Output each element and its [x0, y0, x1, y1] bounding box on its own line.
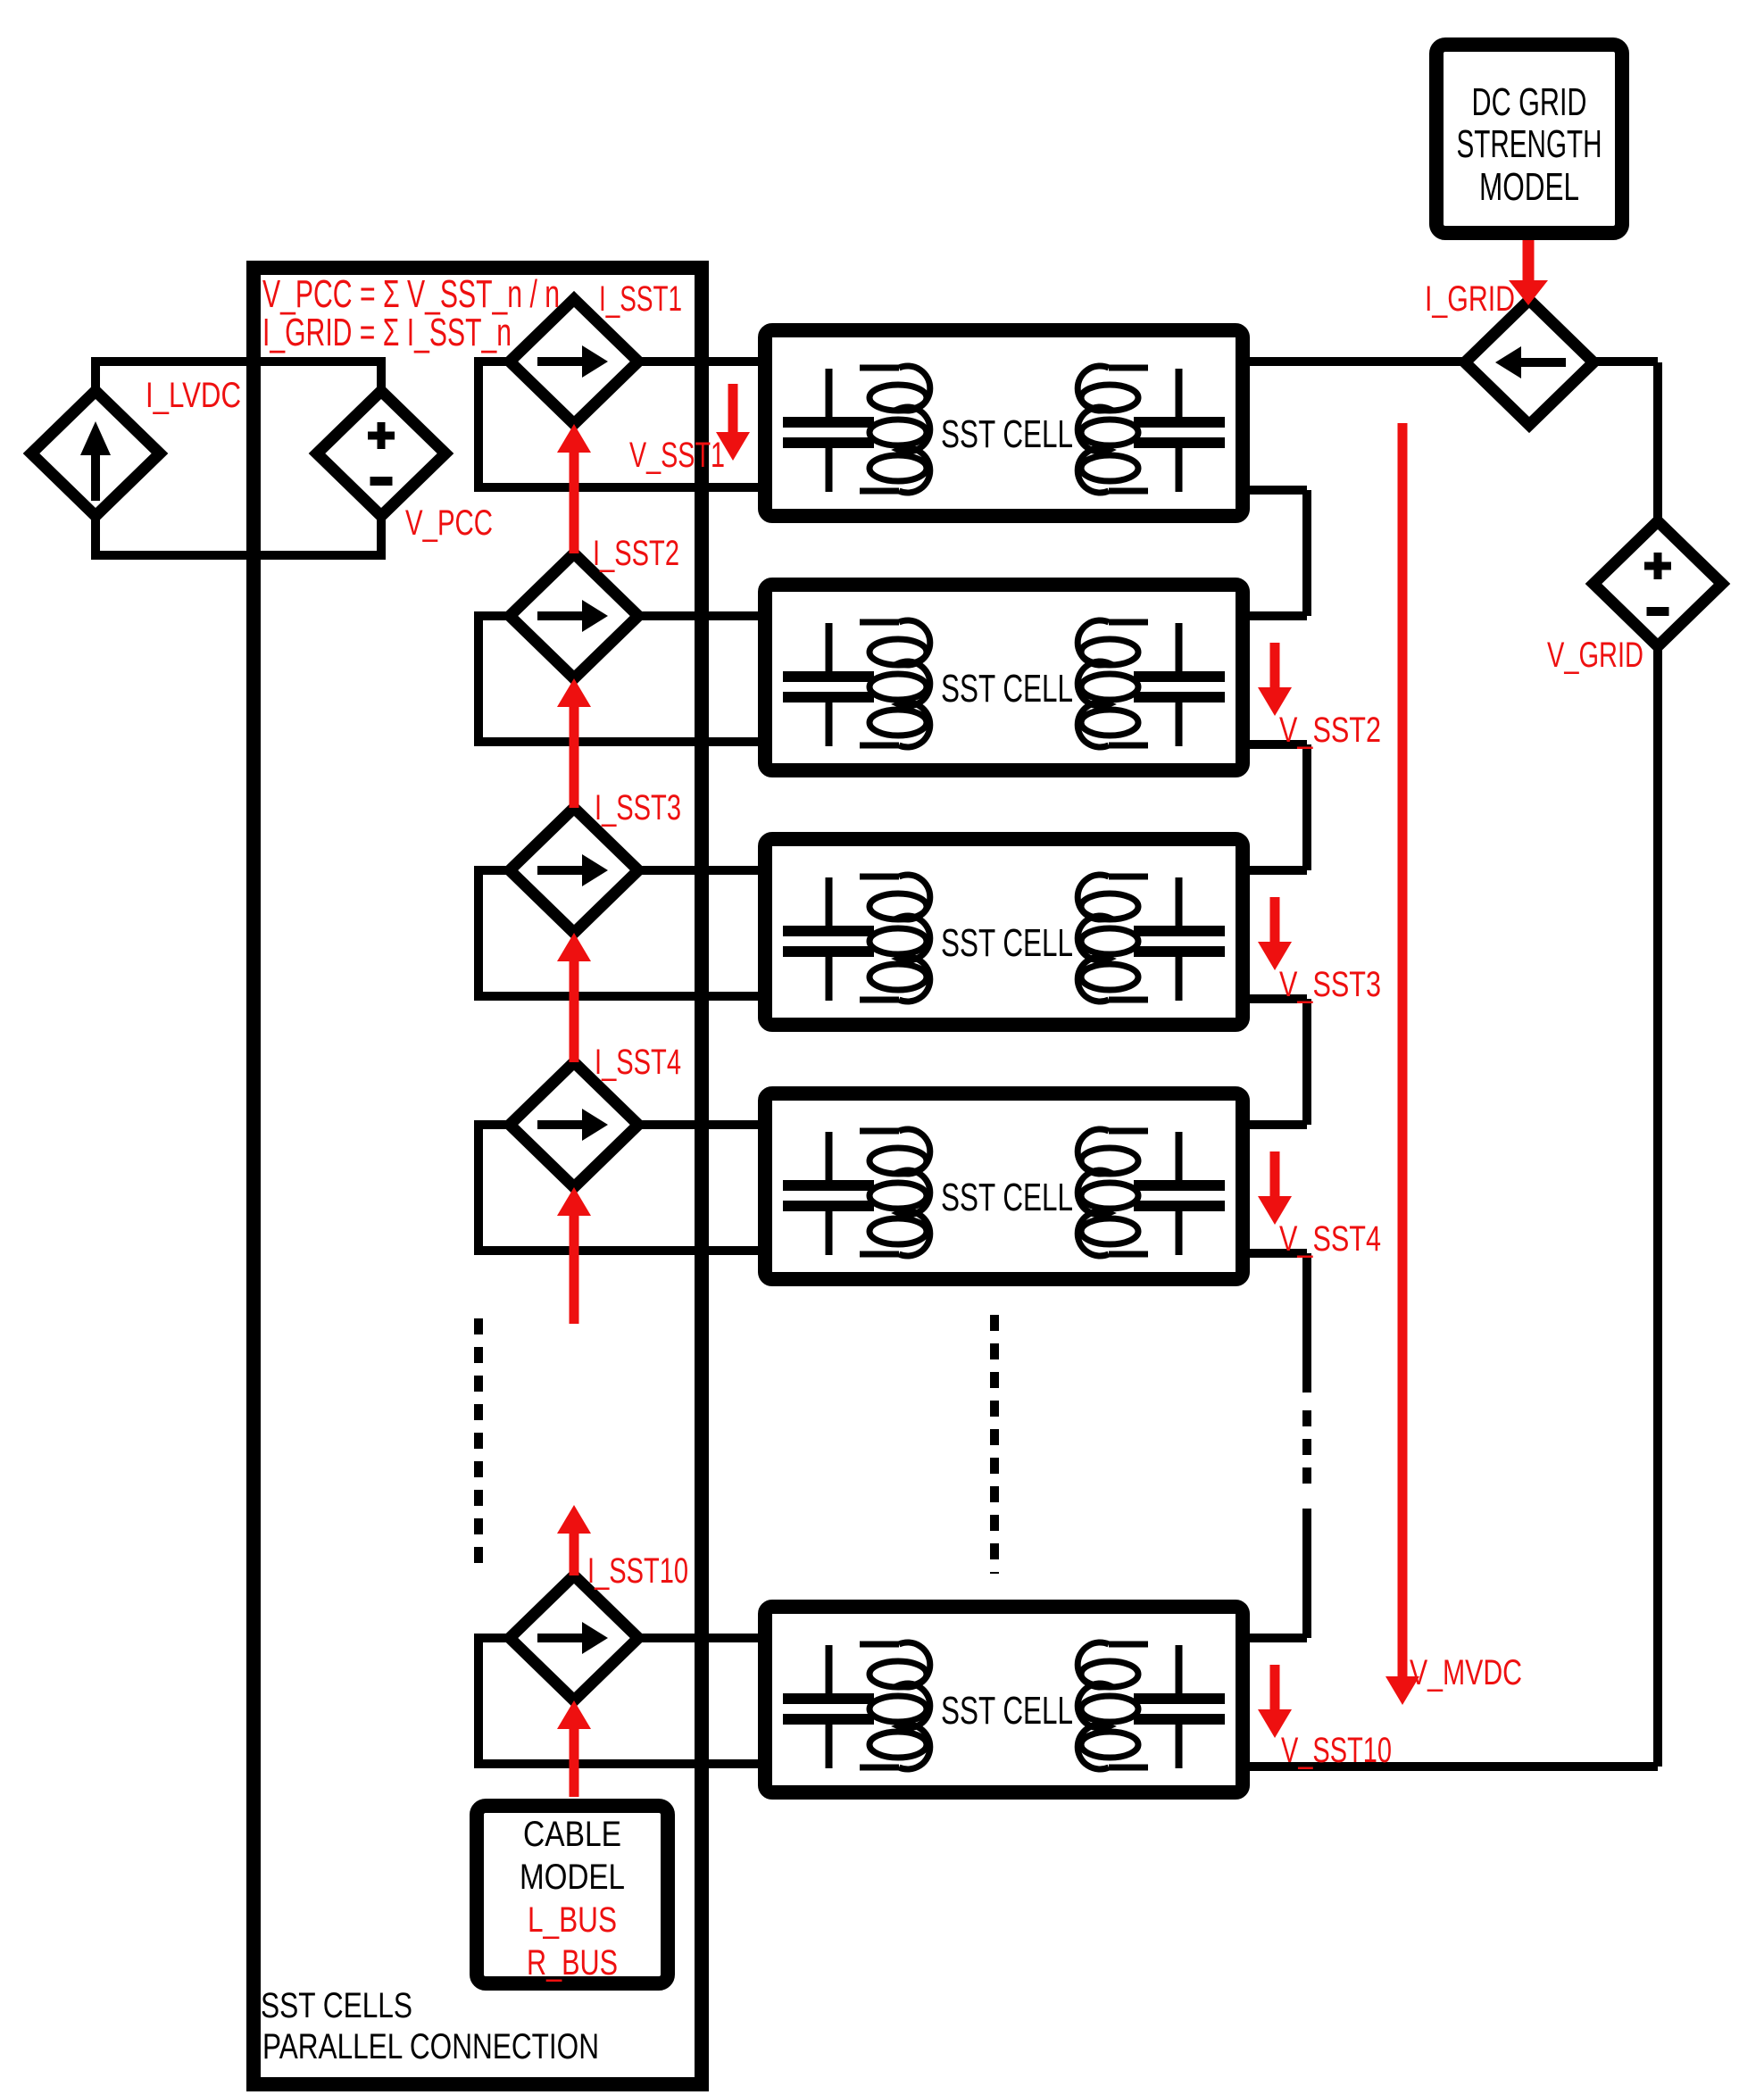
svg-text:I_SST2: I_SST2 — [593, 534, 679, 573]
wire I_SST3 hook (left+bottom) — [478, 870, 758, 996]
svg-text:STRENGTH: STRENGTH — [1457, 122, 1602, 166]
red arrow I_SST chain below 4 — [570, 1216, 579, 1324]
svg-text:DC GRID: DC GRID — [1472, 80, 1587, 124]
wire I_SST2 hook (left+bottom) — [478, 616, 758, 742]
svg-text:V_SST1: V_SST1 — [629, 436, 725, 475]
wire series chain right v3 — [1302, 999, 1311, 1125]
svg-text:V_PCC = Σ V_SST_n / n: V_PCC = Σ V_SST_n / n — [262, 272, 560, 316]
svg-text:MODEL: MODEL — [1479, 165, 1579, 209]
wire series chain right v4 bottom — [1302, 1509, 1311, 1638]
SST CELL 3 — [765, 839, 1243, 1025]
svg-text:MODEL: MODEL — [520, 1858, 625, 1897]
wire I_SST10 hook (left+bottom) — [478, 1638, 758, 1764]
wire series chain right v1 — [1302, 490, 1311, 616]
svg-text:V_SST4: V_SST4 — [1279, 1219, 1381, 1259]
svg-text:V_GRID: V_GRID — [1547, 636, 1643, 675]
svg-text:R_BUS: R_BUS — [527, 1943, 618, 1983]
svg-text:I_LVDC: I_LVDC — [146, 376, 241, 415]
svg-text:SST CELLS: SST CELLS — [261, 1986, 412, 2025]
SST CELL 2 — [765, 585, 1243, 770]
current source I_GRID — [1465, 300, 1593, 425]
current source I_SST2 — [510, 553, 638, 678]
svg-text:PARALLEL CONNECTION: PARALLEL CONNECTION — [262, 2027, 599, 2066]
wire SST10 top-right — [1250, 1634, 1307, 1642]
wire dashed right chain — [1302, 1410, 1311, 1489]
wire dashed middle column — [990, 1315, 999, 1574]
SST CELL 1 — [765, 330, 1243, 516]
wire SST3 top-right — [1250, 866, 1307, 875]
current source I_SST1 — [510, 299, 638, 424]
red arrow I_SST chain 1-2 — [570, 453, 579, 553]
svg-text:L_BUS: L_BUS — [528, 1900, 617, 1940]
svg-text:I_SST3: I_SST3 — [595, 788, 681, 827]
svg-text:V_SST2: V_SST2 — [1279, 711, 1381, 750]
svg-text:I_GRID: I_GRID — [1425, 279, 1515, 319]
SST CELL 4 — [765, 1093, 1243, 1279]
wire I_LVDC / V_PCC loop — [96, 362, 381, 555]
red arrow V_SST3 — [1270, 897, 1280, 942]
svg-text:I_GRID = Σ I_SST_n: I_GRID = Σ I_SST_n — [262, 311, 512, 354]
wire right rail V_GRID — [1653, 362, 1662, 1767]
voltage source V_GRID — [1593, 521, 1722, 646]
wire I_SST4 hook (left+bottom) — [478, 1125, 758, 1251]
wire I_SST1 hook (left+bottom) — [478, 362, 758, 487]
svg-text:V_SST10: V_SST10 — [1281, 1731, 1392, 1770]
svg-text:V_MVDC: V_MVDC — [1410, 1653, 1522, 1692]
wire SST4 top-right — [1250, 1120, 1307, 1129]
current source I_SST10 — [510, 1575, 638, 1700]
wire SST4 bottom-right — [1250, 1249, 1307, 1258]
svg-text:CABLE: CABLE — [523, 1815, 621, 1854]
wire series chain right v2 — [1302, 744, 1311, 870]
red arrow V_SST1 — [728, 384, 738, 432]
wire SST2 bottom-right — [1250, 740, 1307, 749]
wire SST3 bottom-right — [1250, 994, 1307, 1003]
red arrow V_MVDC — [1398, 423, 1408, 1676]
wire SST1 bottom-right — [1250, 486, 1307, 495]
svg-text:V_SST3: V_SST3 — [1279, 965, 1381, 1004]
current source I_LVDC — [31, 391, 160, 516]
wire dashed left column — [474, 1318, 483, 1568]
SST CELL 10 — [765, 1607, 1243, 1792]
svg-text:I_SST4: I_SST4 — [595, 1043, 681, 1082]
current source I_SST4 — [510, 1062, 638, 1187]
red arrow I_SST chain 2-3 — [570, 707, 579, 808]
svg-text:V_PCC: V_PCC — [405, 503, 493, 543]
svg-text:I_SST10: I_SST10 — [587, 1551, 688, 1591]
red arrow I_GRID — [1523, 240, 1535, 280]
current source I_SST3 — [510, 808, 638, 933]
wire SST10 bottom-right rail — [1250, 1762, 1658, 1771]
red arrow I_SST chain 3-4 — [570, 961, 579, 1062]
box: CABLE MODEL — [477, 1806, 668, 1983]
red arrow V_SST2 — [1270, 643, 1280, 687]
red arrow I_SST chain above 10 — [570, 1534, 579, 1575]
svg-text:I_SST1: I_SST1 — [599, 279, 682, 319]
wire series chain right v4 top — [1302, 1253, 1311, 1393]
box: DC GRID STRENGTH MODEL — [1436, 45, 1622, 233]
red arrow cable to I_SST10 — [570, 1729, 579, 1797]
voltage source V_PCC — [317, 391, 445, 516]
wire SST1 top-right to I_GRID — [1250, 357, 1658, 366]
wire SST2 top-right — [1250, 611, 1307, 620]
red arrow V_SST10 — [1270, 1665, 1280, 1709]
box: SST CELLS PARALLEL CONNECTION outline — [254, 268, 702, 2084]
red arrow V_SST4 — [1270, 1151, 1280, 1196]
